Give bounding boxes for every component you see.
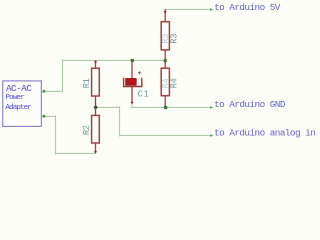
svg-text:R1: R1 bbox=[82, 79, 92, 89]
svg-text:R4: R4 bbox=[161, 79, 171, 89]
svg-text:AC-AC: AC-AC bbox=[6, 83, 32, 94]
svg-text:to Arduino analog in: to Arduino analog in bbox=[214, 128, 315, 139]
svg-text:to Arduino GND: to Arduino GND bbox=[214, 99, 286, 110]
svg-text:Adapter: Adapter bbox=[5, 104, 31, 112]
svg-text:R3: R3 bbox=[161, 34, 171, 44]
svg-text:R3: R3 bbox=[170, 34, 180, 44]
svg-text:C1: C1 bbox=[138, 89, 150, 99]
svg-text:to Arduino 5V: to Arduino 5V bbox=[214, 2, 281, 13]
svg-text:Power: Power bbox=[5, 94, 24, 102]
svg-text:R2: R2 bbox=[82, 125, 92, 135]
